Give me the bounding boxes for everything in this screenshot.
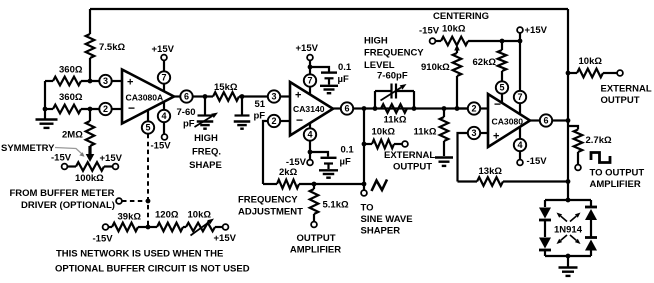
capacitor C3 0.1uF: [310, 145, 354, 178]
label -15V pot left: [51, 153, 72, 164]
svg-text:LEVEL: LEVEL: [364, 60, 395, 71]
node U2 Vplus: [308, 65, 313, 70]
svg-text:µF: µF: [338, 74, 349, 85]
pin 2 U3: [457, 102, 488, 114]
diode D4 1N914: [585, 238, 597, 251]
svg-text:3: 3: [471, 128, 476, 138]
terminal +15V U2: [296, 43, 319, 60]
label high freq shape: [189, 133, 222, 171]
wire pin3 to U1: [112, 80, 122, 82]
resistor R13 13k: [458, 166, 569, 186]
resistor R9 11k: [381, 104, 407, 125]
pin 4 U1: [158, 102, 170, 134]
resistor R1 7.5k: [86, 34, 126, 58]
svg-text:OPTIONAL BUFFER CIRCUIT IS NOT: OPTIONAL BUFFER CIRCUIT IS NOT USED: [55, 264, 250, 275]
node pin2 input: [88, 107, 93, 112]
svg-text:15kΩ: 15kΩ: [214, 82, 238, 93]
svg-text:SHAPE: SHAPE: [189, 160, 222, 171]
resistor R6 2k: [263, 167, 364, 188]
svg-text:5: 5: [499, 83, 504, 93]
resistor R17 120: [148, 210, 183, 232]
svg-text:TO: TO: [361, 203, 374, 214]
terminal -15V centering: [419, 26, 440, 44]
svg-text:120Ω: 120Ω: [155, 210, 179, 221]
svg-text:−: −: [296, 113, 303, 127]
wire U2 out down: [363, 109, 365, 191]
node bridge bottom: [566, 254, 571, 259]
svg-text:OUTPUT: OUTPUT: [296, 233, 335, 244]
node cap branch left: [373, 106, 378, 111]
node pin3 input: [88, 79, 93, 84]
wire U2 out to comparator: [364, 107, 468, 109]
svg-text:13kΩ: 13kΩ: [479, 166, 503, 177]
node 5.1k: [312, 182, 317, 187]
capacitor trimmer 7-60pF: [177, 97, 214, 130]
label frequency adjustment: [238, 195, 303, 218]
terminal +15V U1: [152, 44, 175, 60]
label 1N914: [554, 225, 583, 236]
svg-text:CA3080A: CA3080A: [126, 93, 164, 103]
label to output amplifier: [590, 168, 645, 191]
node bridge top: [566, 198, 571, 203]
terminal -15V U1: [151, 134, 172, 151]
svg-text:SHAPER: SHAPER: [361, 226, 401, 237]
node ext output 1: [362, 142, 367, 147]
node U3 out: [566, 118, 571, 123]
node left gnd bus: [43, 107, 48, 112]
resistor R14 2.7k: [568, 126, 612, 165]
arrows matched top: [557, 213, 581, 222]
svg-text:EXTERNAL: EXTERNAL: [384, 150, 435, 161]
note buffer network: [55, 249, 250, 275]
wiper arrow 2M to pot: [86, 146, 95, 162]
node 13k out: [566, 179, 571, 184]
pin 7 U3: [514, 41, 526, 114]
capacitor 51pF: [234, 97, 266, 129]
pin 6 U3: [530, 114, 568, 126]
svg-text:10kΩ: 10kΩ: [442, 24, 466, 35]
svg-text:7-60pF: 7-60pF: [377, 71, 408, 82]
svg-text:AMPLIFIER: AMPLIFIER: [590, 179, 641, 190]
terminal square out: [575, 165, 581, 171]
resistor R15 10k ext2: [568, 56, 623, 77]
capacitor trimmer 7-60pF level: [375, 84, 414, 109]
svg-text:5: 5: [145, 123, 150, 133]
svg-text:7: 7: [161, 73, 166, 83]
svg-text:2: 2: [271, 116, 276, 126]
resistor R2 360 top: [45, 65, 100, 86]
trimmer arrow: [195, 113, 219, 128]
wire dashed buffer: [122, 199, 150, 204]
label external output 2: [601, 84, 652, 107]
ground bridge: [559, 256, 578, 276]
op-amp U1 CA3080A: [122, 70, 174, 124]
node U2 out: [362, 106, 367, 111]
node 10k ext2: [566, 71, 571, 76]
op-amp U2 CA3140: [290, 82, 333, 136]
svg-text:ADJUSTMENT: ADJUSTMENT: [238, 207, 303, 218]
terminal +15V buffer: [214, 224, 237, 244]
svg-text:7: 7: [307, 76, 312, 86]
pin 7 U1: [158, 60, 170, 91]
resistor R16 39k: [108, 212, 148, 232]
svg-text:FREQUENCY: FREQUENCY: [364, 48, 424, 59]
pin 2 U2: [263, 115, 290, 184]
resistor R10 11k gnd: [414, 109, 449, 157]
wire left bus: [44, 81, 46, 109]
pin 7 U2: [304, 60, 316, 94]
svg-text:pF: pF: [254, 111, 266, 122]
terminal +15V comparator: [517, 25, 548, 41]
svg-text:-15V: -15V: [51, 153, 72, 164]
svg-text:62kΩ: 62kΩ: [473, 57, 497, 68]
terminal buffer driver: [116, 198, 122, 204]
svg-text:HIGH: HIGH: [364, 36, 388, 47]
resistor R18 10k var: [183, 210, 223, 236]
svg-text:2.7kΩ: 2.7kΩ: [586, 135, 612, 146]
svg-text:THIS NETWORK IS USED WHEN THE: THIS NETWORK IS USED WHEN THE: [56, 249, 223, 260]
svg-text:360Ω: 360Ω: [59, 92, 83, 103]
svg-text:0.1: 0.1: [341, 145, 355, 156]
label 100k: [75, 173, 104, 184]
resistor R8 10k ext: [364, 127, 408, 149]
svg-text:-15V: -15V: [93, 234, 114, 245]
svg-text:CA3140: CA3140: [293, 104, 325, 114]
arrows matched bottom: [557, 235, 581, 244]
node 51pF: [240, 94, 245, 99]
wire top feedback rail: [90, 8, 568, 10]
label high frequency level: [364, 36, 424, 82]
pin 3 U3: [458, 127, 489, 182]
svg-text:FREQ.: FREQ.: [192, 147, 221, 158]
svg-text:2kΩ: 2kΩ: [279, 167, 298, 178]
pin 2 U1: [99, 103, 111, 115]
pin 4 U3: [514, 127, 526, 160]
node U1 output: [203, 94, 208, 99]
svg-text:+15V: +15V: [214, 233, 237, 244]
svg-text:10kΩ: 10kΩ: [372, 127, 396, 138]
node +15V corner: [518, 39, 523, 44]
svg-text:EXTERNAL: EXTERNAL: [601, 84, 652, 95]
resistor R11 910k: [421, 45, 461, 109]
svg-text:7.5kΩ: 7.5kΩ: [99, 42, 125, 53]
capacitor C2 0.1uF: [310, 62, 352, 93]
svg-text:-15V: -15V: [527, 156, 548, 167]
svg-text:-15V: -15V: [419, 26, 440, 37]
svg-text:FREQUENCY: FREQUENCY: [238, 195, 298, 206]
svg-text:SYMMETRY: SYMMETRY: [1, 143, 55, 154]
svg-text:910kΩ: 910kΩ: [421, 62, 450, 73]
svg-text:+: +: [127, 77, 133, 89]
node 910k: [455, 106, 460, 111]
svg-text:51: 51: [255, 99, 266, 110]
svg-text:CA3080: CA3080: [492, 117, 524, 127]
node buffer junction: [146, 225, 151, 230]
svg-text:−: −: [128, 101, 135, 115]
svg-text:4: 4: [517, 140, 522, 150]
svg-text:6: 6: [344, 104, 349, 114]
resistor R12 62k: [473, 41, 507, 81]
svg-text:2: 2: [103, 104, 108, 114]
svg-text:6: 6: [184, 92, 189, 102]
svg-text:3: 3: [271, 92, 276, 102]
svg-text:+15V: +15V: [100, 153, 123, 164]
svg-text:10kΩ: 10kΩ: [188, 210, 212, 221]
svg-text:+15V: +15V: [152, 44, 175, 55]
leader arrow symmetry: [55, 148, 85, 157]
pin 4 U2: [304, 123, 316, 159]
svg-text:4: 4: [161, 111, 166, 121]
svg-text:pF: pF: [183, 119, 195, 130]
svg-text:0.1: 0.1: [338, 62, 352, 73]
wire R1 to pin3 node: [89, 58, 91, 81]
svg-text:AMPLIFIER: AMPLIFIER: [290, 245, 341, 256]
label external output 1: [384, 150, 435, 173]
wire to pin3 U2: [242, 95, 268, 97]
svg-text:6: 6: [543, 116, 548, 126]
svg-text:7: 7: [517, 92, 522, 102]
svg-text:OUTPUT: OUTPUT: [393, 162, 432, 173]
svg-text:+15V: +15V: [296, 43, 319, 54]
svg-text:2: 2: [471, 104, 476, 114]
svg-text:FROM BUFFER METER: FROM BUFFER METER: [10, 188, 115, 199]
resistor R5 15k: [205, 82, 242, 101]
svg-text:2MΩ: 2MΩ: [62, 130, 83, 141]
icon square wave: [591, 153, 610, 163]
pin 5 U3: [496, 81, 508, 103]
pin 6 U1: [174, 90, 206, 102]
terminal output amplifier: [290, 222, 341, 256]
wire pin2 to U1: [112, 108, 122, 110]
pin 3 U1: [99, 75, 111, 87]
svg-text:DRIVER (OPTIONAL): DRIVER (OPTIONAL): [21, 200, 115, 211]
node 11k divider: [442, 106, 447, 111]
svg-text:100kΩ: 100kΩ: [75, 173, 104, 184]
wire bridge frame: [545, 200, 591, 256]
diode D2 1N914: [539, 238, 551, 251]
pin 3 U2: [268, 90, 290, 102]
svg-text:OUTPUT: OUTPUT: [601, 95, 640, 106]
terminal -15V U3: [517, 156, 547, 167]
terminal sine out: [361, 190, 367, 196]
potentiometer 100k: [62, 162, 119, 171]
svg-text:+: +: [493, 131, 499, 143]
svg-text:TO OUTPUT: TO OUTPUT: [590, 168, 645, 179]
resistor R7 5.1k: [310, 184, 349, 222]
svg-text:3: 3: [103, 76, 108, 86]
svg-text:1N914: 1N914: [554, 225, 583, 236]
svg-text:360Ω: 360Ω: [59, 65, 83, 76]
svg-text:-15V: -15V: [151, 141, 172, 152]
svg-text:7-60: 7-60: [177, 107, 196, 118]
diode D3 1N914: [585, 207, 597, 220]
node sine out: [362, 182, 367, 187]
node U2 Vminus: [308, 150, 313, 155]
pin 5 U1: [142, 110, 154, 134]
wire output bus: [567, 9, 569, 200]
terminal -15V buffer: [93, 224, 114, 244]
svg-text:+: +: [295, 90, 301, 102]
svg-text:4: 4: [307, 130, 312, 140]
node 62k top: [500, 39, 505, 44]
svg-text:µF: µF: [340, 157, 351, 168]
svg-text:5.1kΩ: 5.1kΩ: [323, 200, 349, 211]
svg-text:SINE WAVE: SINE WAVE: [361, 214, 413, 225]
svg-text:11kΩ: 11kΩ: [384, 115, 407, 126]
resistor R4 2M: [62, 109, 94, 146]
svg-text:−: −: [494, 97, 501, 111]
ground left: [36, 109, 58, 128]
label +15V pot right: [100, 153, 123, 164]
potentiometer 10k centering: [435, 24, 520, 46]
resistor R3 360 bottom: [45, 92, 100, 113]
label symmetry: [1, 143, 55, 154]
label centering: [433, 11, 489, 22]
pin 6 U2: [333, 102, 364, 114]
wire rail to R1: [89, 9, 91, 34]
svg-text:39kΩ: 39kΩ: [118, 212, 142, 223]
op-amp U3 CA3080: [488, 94, 530, 147]
node cap branch right: [412, 106, 417, 111]
svg-text:CENTERING: CENTERING: [433, 11, 489, 22]
wire dashed pin5 down: [147, 134, 149, 227]
label to sine wave shaper: [361, 203, 413, 237]
svg-text:HIGH: HIGH: [194, 133, 218, 144]
ground 11k: [435, 158, 453, 166]
svg-text:10kΩ: 10kΩ: [579, 56, 603, 67]
label from buffer meter driver: [10, 188, 115, 211]
terminal -15V U2: [286, 157, 313, 168]
icon sine wave: [372, 180, 388, 192]
diode D1 1N914: [539, 208, 551, 221]
svg-text:+15V: +15V: [525, 25, 548, 36]
svg-text:11kΩ: 11kΩ: [414, 127, 437, 138]
